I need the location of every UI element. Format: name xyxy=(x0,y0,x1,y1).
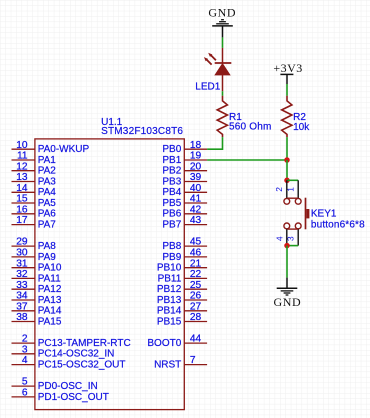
svg-text:PA0-WKUP: PA0-WKUP xyxy=(38,144,90,155)
svg-text:2: 2 xyxy=(22,334,28,345)
svg-text:PB6: PB6 xyxy=(162,209,181,220)
svg-text:PB4: PB4 xyxy=(162,187,181,198)
svg-text:GND: GND xyxy=(273,295,301,309)
KEY1 pin 3 xyxy=(295,223,301,229)
svg-text:PB1: PB1 xyxy=(162,155,181,166)
svg-text:PB7: PB7 xyxy=(162,220,181,231)
svg-text:PC13-TAMPER-RTC: PC13-TAMPER-RTC xyxy=(38,338,131,349)
svg-text:39: 39 xyxy=(190,172,202,183)
junction node KEY1 bottom xyxy=(284,243,290,249)
svg-text:46: 46 xyxy=(190,248,202,259)
svg-text:PB11: PB11 xyxy=(158,273,182,284)
svg-text:42: 42 xyxy=(190,204,202,215)
svg-text:PA9: PA9 xyxy=(38,252,57,263)
svg-text:1: 1 xyxy=(286,187,296,192)
svg-text:7: 7 xyxy=(190,355,196,366)
wire GND to LED1 cathode xyxy=(222,37,224,48)
KEY1 bottom contact link xyxy=(287,228,298,230)
svg-text:PA1: PA1 xyxy=(38,155,57,166)
wire R1 to pin 18 PB0 xyxy=(207,137,222,149)
U1 right pin numbers xyxy=(190,140,202,366)
power flag +3V3 xyxy=(273,61,302,84)
svg-text:40: 40 xyxy=(190,183,202,194)
svg-text:PC14-OSC32_IN: PC14-OSC32_IN xyxy=(38,349,115,360)
svg-text:25: 25 xyxy=(190,280,202,291)
svg-text:19: 19 xyxy=(190,151,202,162)
svg-text:PB0: PB0 xyxy=(162,144,181,155)
junction node KEY1 top xyxy=(284,178,290,184)
svg-text:4: 4 xyxy=(274,236,284,241)
svg-text:PA15: PA15 xyxy=(38,316,62,327)
wire junction down to KEY1 xyxy=(286,160,288,180)
svg-text:PA6: PA6 xyxy=(38,209,57,220)
svg-text:15: 15 xyxy=(16,194,28,205)
svg-text:10: 10 xyxy=(16,140,28,151)
svg-text:PA4: PA4 xyxy=(38,187,57,198)
svg-text:PA7: PA7 xyxy=(38,220,57,231)
svg-text:6: 6 xyxy=(22,388,28,399)
svg-text:3: 3 xyxy=(22,344,28,355)
svg-text:33: 33 xyxy=(16,280,28,291)
svg-text:32: 32 xyxy=(16,269,28,280)
svg-text:27: 27 xyxy=(190,301,202,312)
IC U1 body STM32F103C8T6 xyxy=(35,139,184,410)
junction node R2/PB1 xyxy=(284,157,290,163)
wire KEY1 pin3 to pin4 bottom join xyxy=(287,245,298,247)
wire KEY1 to GND xyxy=(286,246,288,278)
svg-text:PB5: PB5 xyxy=(162,198,181,209)
switch KEY1 button6*6*8 xyxy=(274,180,309,245)
svg-text:KEY1: KEY1 xyxy=(311,208,337,219)
U1 left pin numbers xyxy=(16,140,28,399)
svg-text:45: 45 xyxy=(190,237,202,248)
KEY1 pin 2 xyxy=(286,180,288,198)
wire to KEY1 pin 1 xyxy=(287,179,298,181)
svg-text:22: 22 xyxy=(190,269,202,280)
svg-text:PA10: PA10 xyxy=(38,263,62,274)
svg-text:PA3: PA3 xyxy=(38,176,57,187)
svg-text:37: 37 xyxy=(16,301,28,312)
svg-text:button6*6*8: button6*6*8 xyxy=(311,219,365,230)
svg-text:PB12: PB12 xyxy=(157,284,182,295)
KEY1 top contact link xyxy=(287,197,298,199)
resistor R2 10k xyxy=(282,96,292,137)
svg-text:28: 28 xyxy=(190,312,202,323)
svg-text:21: 21 xyxy=(190,258,202,269)
resistor R1 560 Ohm xyxy=(217,96,227,137)
svg-text:41: 41 xyxy=(190,194,202,205)
svg-text:38: 38 xyxy=(16,312,28,323)
svg-text:PA14: PA14 xyxy=(38,306,62,317)
svg-text:PA8: PA8 xyxy=(38,241,57,252)
svg-text:PA12: PA12 xyxy=(38,284,62,295)
svg-text:31: 31 xyxy=(16,258,28,269)
svg-text:44: 44 xyxy=(190,334,202,345)
svg-text:PB3: PB3 xyxy=(162,176,181,187)
svg-text:13: 13 xyxy=(16,172,28,183)
KEY1 actuator xyxy=(305,198,307,230)
svg-text:5: 5 xyxy=(22,377,28,388)
wire +3V3 to R2 xyxy=(286,84,288,96)
svg-text:11: 11 xyxy=(17,151,28,162)
svg-text:PA11: PA11 xyxy=(38,273,61,284)
svg-text:PB14: PB14 xyxy=(157,306,182,317)
svg-text:+3V3: +3V3 xyxy=(273,61,302,75)
svg-text:10k: 10k xyxy=(293,122,310,133)
KEY1 pin 1 xyxy=(297,180,299,198)
svg-text:2: 2 xyxy=(274,187,284,192)
svg-text:16: 16 xyxy=(16,204,28,215)
svg-text:29: 29 xyxy=(16,237,28,248)
svg-text:PB9: PB9 xyxy=(162,252,181,263)
KEY1 pin 4 xyxy=(284,223,290,229)
svg-text:14: 14 xyxy=(16,183,28,194)
svg-text:18: 18 xyxy=(190,140,202,151)
svg-text:PD1-OSC_OUT: PD1-OSC_OUT xyxy=(38,392,109,403)
svg-text:BOOT0: BOOT0 xyxy=(147,338,181,349)
svg-text:LED1: LED1 xyxy=(195,82,220,93)
svg-text:3: 3 xyxy=(286,236,296,241)
svg-text:26: 26 xyxy=(190,291,202,302)
svg-text:PB10: PB10 xyxy=(157,263,182,274)
wire R2 to junction xyxy=(286,137,288,160)
svg-text:PB15: PB15 xyxy=(157,316,182,327)
svg-text:43: 43 xyxy=(190,215,202,226)
svg-text:PA2: PA2 xyxy=(38,166,57,177)
svg-text:STM32F103C8T6: STM32F103C8T6 xyxy=(101,126,183,137)
svg-text:PC15-OSC32_OUT: PC15-OSC32_OUT xyxy=(38,360,126,371)
svg-text:17: 17 xyxy=(16,215,28,226)
U1 left pin names xyxy=(38,144,131,403)
svg-text:NRST: NRST xyxy=(154,360,181,371)
svg-text:PA13: PA13 xyxy=(38,295,62,306)
svg-text:PD0-OSC_IN: PD0-OSC_IN xyxy=(38,381,98,392)
svg-text:PB13: PB13 xyxy=(157,295,182,306)
wire LED1 anode to R1 xyxy=(222,91,224,96)
svg-text:20: 20 xyxy=(190,161,202,172)
svg-text:34: 34 xyxy=(16,291,28,302)
svg-text:30: 30 xyxy=(16,248,28,259)
svg-text:4: 4 xyxy=(22,355,28,366)
U1 right pin lines xyxy=(184,149,207,364)
LED1 emission arrow 2 xyxy=(204,57,212,65)
ground symbol bottom (net GND) xyxy=(273,278,301,309)
svg-text:12: 12 xyxy=(16,161,28,172)
wire pin 19 PB1 to key net xyxy=(207,159,287,161)
svg-text:560 Ohm: 560 Ohm xyxy=(229,122,272,133)
svg-text:GND: GND xyxy=(208,6,236,20)
LED LED1 xyxy=(204,48,231,91)
svg-text:PB2: PB2 xyxy=(162,166,181,177)
svg-text:PB8: PB8 xyxy=(162,241,181,252)
svg-text:PA5: PA5 xyxy=(38,198,57,209)
U1 right pin names xyxy=(147,144,181,370)
ground symbol top (net GND, flipped) xyxy=(208,6,236,38)
LED1 emission arrow 1 xyxy=(208,53,216,61)
U1 left pin lines xyxy=(12,149,35,397)
